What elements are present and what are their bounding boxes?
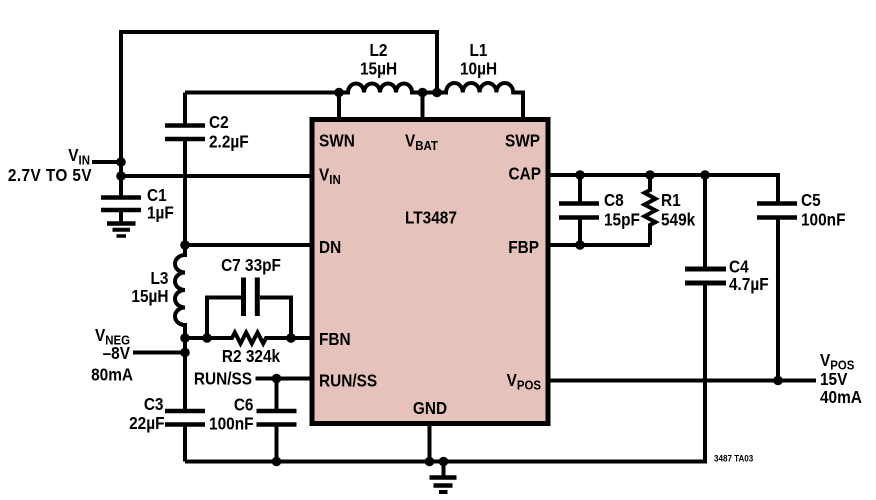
svg-text:FBP: FBP [508, 238, 539, 257]
svg-text:1µF: 1µF [147, 204, 174, 223]
svg-text:–8V: –8V [103, 344, 130, 363]
svg-text:C1: C1 [147, 186, 167, 205]
svg-text:SWN: SWN [319, 132, 355, 151]
svg-text:C4: C4 [729, 258, 749, 277]
svg-text:15pF: 15pF [604, 211, 640, 230]
svg-text:C8: C8 [604, 191, 624, 210]
svg-text:DN: DN [319, 238, 341, 257]
svg-text:R2 324k: R2 324k [222, 347, 281, 366]
svg-text:100nF: 100nF [801, 211, 845, 230]
svg-text:40mA: 40mA [820, 388, 862, 407]
svg-text:RUN/SS: RUN/SS [194, 370, 252, 389]
svg-text:80mA: 80mA [91, 366, 133, 385]
svg-text:100nF: 100nF [209, 415, 253, 434]
svg-text:15V: 15V [820, 370, 847, 389]
svg-text:C6: C6 [234, 396, 254, 415]
svg-text:L1: L1 [470, 41, 488, 60]
svg-text:L2: L2 [370, 41, 388, 60]
svg-text:4.7µF: 4.7µF [729, 275, 769, 294]
svg-text:549k: 549k [661, 211, 696, 230]
svg-text:L3: L3 [151, 269, 169, 288]
svg-text:C2: C2 [209, 113, 229, 132]
svg-text:GND: GND [413, 399, 447, 418]
svg-text:C5: C5 [801, 191, 821, 210]
svg-text:C3: C3 [144, 395, 164, 414]
svg-text:C7 33pF: C7 33pF [221, 256, 281, 275]
svg-text:15µH: 15µH [360, 60, 397, 79]
svg-text:10µH: 10µH [460, 60, 497, 79]
svg-text:2.2µF: 2.2µF [209, 133, 249, 152]
svg-text:FBN: FBN [319, 330, 351, 349]
svg-text:SWP: SWP [505, 132, 540, 151]
svg-text:2.7V TO 5V: 2.7V TO 5V [8, 166, 92, 185]
svg-text:LT3487: LT3487 [405, 209, 457, 228]
svg-text:22µF: 22µF [129, 414, 164, 433]
svg-text:3487 TA03: 3487 TA03 [714, 453, 753, 464]
svg-text:RUN/SS: RUN/SS [319, 372, 377, 391]
svg-text:R1: R1 [661, 191, 681, 210]
svg-text:CAP: CAP [509, 165, 541, 184]
svg-text:15µH: 15µH [131, 287, 168, 306]
